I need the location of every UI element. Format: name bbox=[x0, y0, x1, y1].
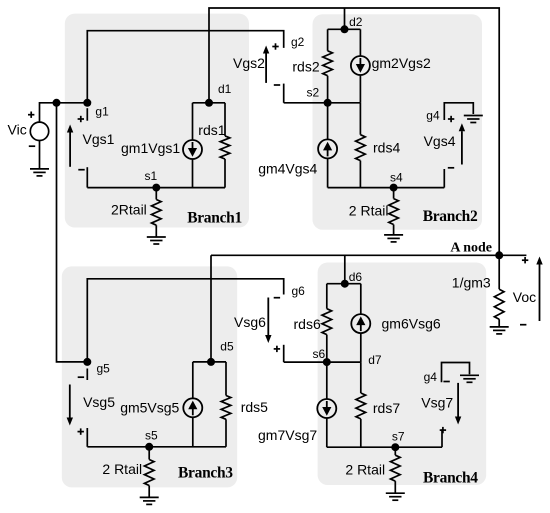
wire 2Rtail branch3 to ground bbox=[148, 486, 150, 498]
Vgs2 arrow bbox=[265, 54, 267, 83]
wire rds1 lower lead bbox=[224, 159, 226, 188]
svg-text:s1: s1 bbox=[145, 169, 158, 183]
Vgs4 arrow bbox=[461, 131, 463, 164]
Vsg7 minus sign bbox=[443, 381, 449, 383]
Vgs4 minus sign bbox=[448, 167, 454, 169]
Branch4 background box bbox=[318, 263, 487, 486]
svg-text:gm7Vsg7: gm7Vsg7 bbox=[258, 427, 317, 443]
wire rds7 upper lead bbox=[360, 362, 362, 393]
Vsg7 arrow bbox=[457, 383, 459, 417]
svg-text:gm5Vsg5: gm5Vsg5 bbox=[120, 400, 179, 416]
svg-text:rds2: rds2 bbox=[292, 58, 319, 74]
svg-text:Vgs2: Vgs2 bbox=[233, 55, 265, 71]
wire gm1 lower lead bbox=[192, 159, 194, 188]
resistor rds5 bbox=[221, 396, 231, 420]
svg-text:2Rtail: 2Rtail bbox=[111, 202, 147, 218]
Vic plus sign bbox=[28, 114, 34, 116]
g4 top bracket wire bbox=[444, 103, 473, 120]
svg-text:gm4Vgs4: gm4Vgs4 bbox=[258, 161, 317, 177]
wire s5 rail bbox=[87, 446, 226, 448]
svg-text:Vgs1: Vgs1 bbox=[83, 131, 115, 147]
svg-text:Branch4: Branch4 bbox=[423, 470, 478, 487]
Vsg7 plus sign bbox=[440, 429, 446, 431]
svg-text:rds4: rds4 bbox=[373, 139, 400, 155]
wire s4 rail bbox=[328, 187, 445, 189]
wire g1 up and across to g2 bbox=[87, 31, 283, 103]
svg-text:g2: g2 bbox=[291, 35, 305, 49]
ground under Vic bbox=[30, 168, 49, 170]
node g1 bbox=[83, 99, 91, 107]
node s7 bbox=[391, 443, 399, 451]
resistor 2Rtail branch3 bbox=[144, 460, 154, 486]
ground under 1/gm3 bbox=[490, 326, 509, 328]
wire rds1 upper lead bbox=[224, 103, 226, 136]
svg-text:Branch1: Branch1 bbox=[187, 210, 242, 227]
wire gm6 lower lead bbox=[360, 333, 362, 362]
resistor 2Rtail branch1 bbox=[152, 200, 162, 226]
svg-text:d6: d6 bbox=[349, 270, 363, 284]
node d2 bbox=[341, 25, 349, 33]
ground under 2Rtail branch4 bbox=[386, 492, 405, 494]
wire branch1 top bar bbox=[193, 102, 226, 104]
wire input down to g5 bbox=[57, 103, 88, 362]
svg-text:rds1: rds1 bbox=[198, 122, 225, 138]
Vsg5 arrow bbox=[69, 385, 71, 418]
wire gm5 lower lead bbox=[192, 417, 194, 447]
node d1 bbox=[205, 99, 213, 107]
node d6 bbox=[341, 280, 349, 288]
wire rds7 lower lead bbox=[360, 419, 362, 447]
resistor 2Rtail branch2 bbox=[389, 199, 399, 225]
wire g5 up and across to g6 bbox=[87, 279, 283, 362]
svg-text:g4: g4 bbox=[426, 109, 440, 123]
wire rds6 upper lead bbox=[326, 284, 328, 309]
Vsg7 plus bracket wire bbox=[441, 429, 443, 447]
wire s1 rail bbox=[87, 187, 225, 189]
Branch2 background box bbox=[313, 14, 483, 230]
wire 2Rtail branch2 to ground bbox=[393, 225, 395, 235]
wire Vic top lead bbox=[40, 103, 88, 122]
svg-text:d7: d7 bbox=[368, 353, 382, 367]
node s5 bbox=[145, 443, 153, 451]
Branch3 background box bbox=[62, 266, 237, 487]
Vgs1 plus sign bbox=[78, 118, 84, 120]
g4 bottom bracket wire bbox=[442, 363, 470, 383]
svg-text:2 Rtail: 2 Rtail bbox=[102, 461, 142, 477]
Voc minus sign bbox=[520, 324, 526, 326]
Vgs2 minus bracket wire bbox=[283, 84, 285, 103]
node junction on input wire bbox=[53, 99, 61, 107]
Vsg6 minus sign bbox=[274, 297, 280, 299]
wire s5 to 2Rtail bbox=[148, 447, 150, 460]
wire gm1 upper lead bbox=[192, 103, 194, 140]
Branch1 background box bbox=[65, 14, 249, 228]
Voc arrow bbox=[539, 265, 541, 322]
svg-text:s4: s4 bbox=[390, 171, 403, 185]
svg-text:d2: d2 bbox=[349, 15, 363, 29]
wire s2 to gm4 bbox=[327, 103, 329, 140]
Voc plus sign bbox=[522, 259, 528, 261]
wire s2 rail bbox=[284, 102, 361, 104]
wire branch3 top bar bbox=[193, 361, 226, 363]
node A junction bbox=[495, 251, 503, 259]
svg-text:Voc: Voc bbox=[513, 289, 536, 305]
svg-text:2 Rtail: 2 Rtail bbox=[349, 202, 389, 218]
wire rds2 upper lead bbox=[327, 29, 329, 51]
svg-text:A node: A node bbox=[450, 241, 492, 256]
wire branch4 top bar bbox=[327, 283, 361, 285]
wire d5 drop from A node bbox=[210, 255, 212, 362]
wire s6 to gm7 bbox=[326, 362, 328, 399]
wire gm7 lower lead bbox=[326, 418, 328, 447]
node s1 bbox=[152, 184, 160, 192]
wire rds5 lower lead bbox=[225, 419, 227, 447]
node s6 bbox=[323, 358, 331, 366]
Vsg5 minus tick bbox=[86, 369, 88, 381]
resistor 1/gm3 upper lead bbox=[498, 255, 500, 289]
svg-text:Vsg5: Vsg5 bbox=[83, 394, 115, 410]
wire rds4 lower lead bbox=[359, 161, 361, 188]
Vsg5 minus sign bbox=[78, 376, 84, 378]
Vsg6 plus sign bbox=[274, 348, 280, 350]
svg-text:s6: s6 bbox=[313, 347, 326, 361]
Vsg5 plus sign bbox=[78, 431, 84, 433]
wire rds6 lower lead bbox=[326, 335, 328, 363]
svg-text:gm6Vsg6: gm6Vsg6 bbox=[382, 315, 441, 331]
resistor rds2 bbox=[323, 51, 333, 76]
Vgs2 minus sign bbox=[274, 84, 280, 86]
ground under 2Rtail branch2 bbox=[384, 234, 403, 236]
Vgs1 plus tick bbox=[86, 108, 88, 121]
voltage source Vic bbox=[30, 122, 48, 140]
resistor rds1 bbox=[220, 136, 230, 159]
ground under 2Rtail branch1 bbox=[147, 236, 166, 238]
wire gm2 lower lead bbox=[359, 75, 361, 103]
wire branch2 top bar bbox=[328, 28, 361, 30]
node g5 bbox=[83, 358, 91, 366]
svg-text:gm1Vgs1: gm1Vgs1 bbox=[121, 140, 180, 156]
current source gm6Vsg6 bbox=[351, 314, 370, 333]
resistor rds7 bbox=[356, 393, 366, 419]
Vsg5 plus bracket wire bbox=[86, 428, 88, 447]
svg-text:s2: s2 bbox=[307, 86, 320, 100]
wire 2Rtail branch1 to ground bbox=[155, 225, 157, 237]
wire rds2 lower lead bbox=[327, 76, 329, 103]
wire gm2 upper lead bbox=[359, 29, 361, 56]
resistor rds4 bbox=[356, 135, 366, 161]
Vic minus sign bbox=[29, 145, 35, 147]
wire gm6 upper lead bbox=[360, 284, 362, 314]
resistor rds6 bbox=[322, 309, 332, 335]
current source gm2Vgs2 bbox=[351, 56, 370, 75]
svg-text:rds7: rds7 bbox=[373, 400, 400, 416]
svg-text:Branch3: Branch3 bbox=[178, 465, 233, 482]
wire s4 to 2Rtail bbox=[393, 188, 395, 199]
node s2 bbox=[324, 99, 332, 107]
wire 1/gm3 to ground bbox=[498, 319, 500, 327]
svg-text:Branch2: Branch2 bbox=[423, 208, 478, 225]
Vgs1 minus sign bbox=[78, 169, 84, 171]
wire s6 rail bbox=[284, 361, 361, 363]
wire rds4 upper lead bbox=[359, 103, 361, 135]
Vgs2 plus sign bbox=[272, 46, 278, 48]
svg-text:Vsg7: Vsg7 bbox=[421, 395, 453, 411]
current source gm1Vgs1 bbox=[183, 140, 202, 159]
svg-text:g6: g6 bbox=[292, 284, 306, 298]
wire s1 to 2Rtail bbox=[155, 188, 157, 200]
svg-text:g1: g1 bbox=[95, 105, 109, 119]
svg-text:Vic: Vic bbox=[8, 122, 27, 138]
svg-text:g5: g5 bbox=[97, 362, 111, 376]
wire A node rail bbox=[211, 254, 526, 256]
node d5 bbox=[207, 358, 215, 366]
Vgs4 minus bracket wire bbox=[443, 169, 445, 188]
wire d2 drop bbox=[344, 8, 346, 29]
ground at g4 bottom bbox=[460, 374, 479, 376]
svg-text:gm2Vgs2: gm2Vgs2 bbox=[372, 55, 431, 71]
Vgs4 plus sign bbox=[448, 118, 454, 120]
wire s7 to 2Rtail bbox=[394, 447, 396, 455]
svg-text:s7: s7 bbox=[392, 430, 405, 444]
svg-text:s5: s5 bbox=[145, 429, 158, 443]
svg-text:rds6: rds6 bbox=[294, 316, 321, 332]
svg-text:Vsg6: Vsg6 bbox=[234, 314, 266, 330]
resistor 1/gm3 bbox=[494, 289, 504, 319]
wire Vic bottom lead bbox=[39, 141, 41, 169]
wire d6 drop bbox=[344, 255, 346, 283]
svg-text:g4: g4 bbox=[424, 370, 438, 384]
node s4 bbox=[390, 184, 398, 192]
svg-text:1/gm3: 1/gm3 bbox=[452, 275, 491, 291]
svg-text:rds5: rds5 bbox=[241, 399, 268, 415]
ground at g4 top bbox=[464, 115, 483, 117]
Vgs1 minus bracket wire bbox=[86, 167, 88, 187]
svg-text:2 Rtail: 2 Rtail bbox=[345, 462, 385, 478]
ground under 2Rtail branch3 bbox=[140, 496, 159, 498]
current source gm4Vgs4 bbox=[318, 139, 337, 158]
Vsg6 plus bracket wire bbox=[283, 345, 285, 362]
current source gm5Vsg5 bbox=[183, 398, 202, 417]
wire gm4 lower lead bbox=[327, 158, 329, 187]
Vsg6 arrow bbox=[267, 298, 269, 336]
wire gm5 upper lead bbox=[192, 362, 194, 398]
wire rds5 upper lead bbox=[225, 362, 227, 396]
svg-text:Vgs4: Vgs4 bbox=[424, 133, 456, 149]
resistor 2Rtail branch4 bbox=[391, 455, 401, 481]
current source gm7Vsg7 bbox=[317, 399, 336, 418]
wire 2Rtail branch4 to ground bbox=[394, 481, 396, 493]
svg-text:d5: d5 bbox=[220, 340, 234, 354]
svg-text:d1: d1 bbox=[218, 82, 232, 96]
wire s7 rail bbox=[327, 446, 442, 448]
Vgs1 arrow bbox=[69, 133, 71, 167]
wire top rail d1 to A node bbox=[209, 8, 499, 255]
